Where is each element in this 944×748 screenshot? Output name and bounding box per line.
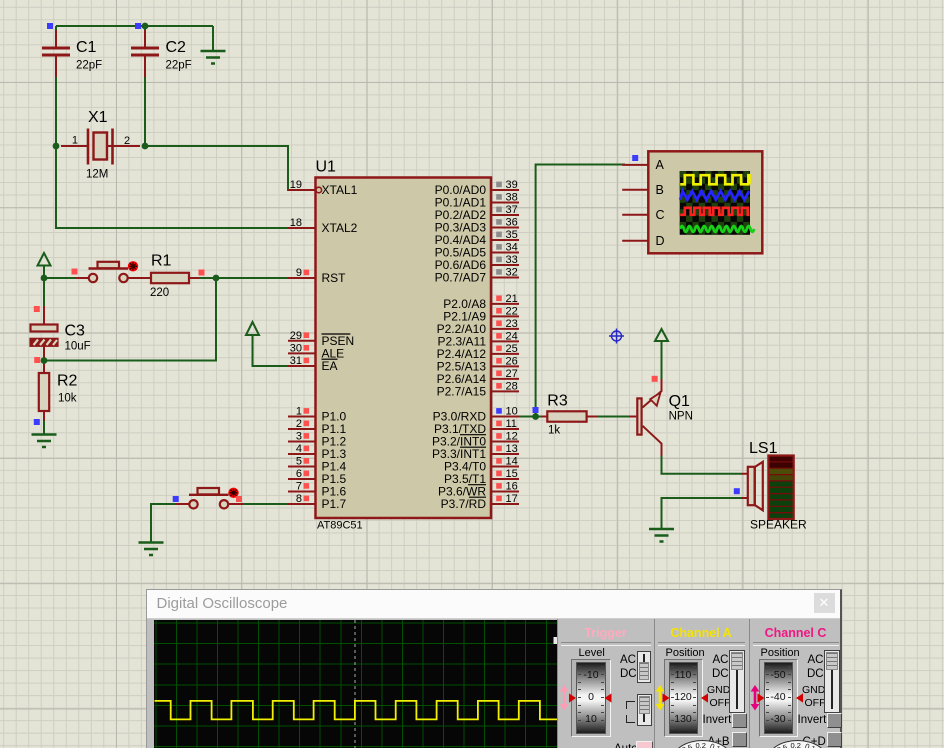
svg-text:C1: C1 <box>76 39 97 56</box>
capacitor C1 22pF <box>42 30 102 77</box>
pin 37 P0.2/AD2 <box>435 204 519 222</box>
pin 32 P0.7/AD7 <box>435 267 519 285</box>
pin 22 P2.1/A9 <box>443 305 519 323</box>
wire C1 to X1 pin1 <box>55 26 57 146</box>
pin 35 P0.4/AD4 <box>435 229 519 247</box>
net indicator speaker <box>734 488 740 494</box>
net indicator scope A <box>632 155 638 161</box>
node C3 bottom <box>41 357 48 364</box>
svg-text:10: 10 <box>506 406 518 418</box>
pin 12 P3.2/INT0 <box>432 431 519 449</box>
node RST <box>213 275 220 282</box>
svg-text:28: 28 <box>506 380 518 392</box>
svg-text:35: 35 <box>506 229 518 241</box>
svg-text:24: 24 <box>506 330 518 342</box>
node P3.0 <box>532 413 539 420</box>
pin indicator button2 right <box>236 496 242 502</box>
svg-text:32: 32 <box>506 267 518 279</box>
wire button2 to P1.7 <box>228 503 292 505</box>
ground below R2 <box>32 435 57 448</box>
svg-text:XTAL1: XTAL1 <box>322 183 358 197</box>
node reset power <box>41 275 48 282</box>
svg-text:EA: EA <box>322 359 338 373</box>
pin 17 P3.7/RD <box>441 493 519 511</box>
svg-text:31: 31 <box>290 355 302 367</box>
pin 36 P0.3/AD3 <box>435 217 519 235</box>
pin 9 RST <box>288 267 346 285</box>
svg-text:18: 18 <box>290 217 302 229</box>
svg-text:29: 29 <box>290 330 302 342</box>
svg-text:19: 19 <box>290 179 302 191</box>
svg-text:D: D <box>656 234 665 248</box>
pin 24 P2.3/A11 <box>438 330 519 348</box>
power terminal reset circuit <box>38 253 51 278</box>
svg-text:4: 4 <box>296 443 302 455</box>
svg-text:B: B <box>656 183 664 197</box>
svg-text:P0.7/AD7: P0.7/AD7 <box>435 271 487 285</box>
svg-text:22pF: 22pF <box>76 60 102 72</box>
net indicator P3.0 wire <box>533 407 539 413</box>
pin 30 ALE <box>288 342 344 360</box>
wire EA power arrow <box>253 336 293 366</box>
svg-text:5: 5 <box>296 456 302 468</box>
svg-text:38: 38 <box>506 192 518 204</box>
pin 38 P0.1/AD1 <box>435 192 519 210</box>
svg-text:36: 36 <box>506 217 518 229</box>
pin 26 P2.5/A13 <box>437 355 519 373</box>
pin indicator C3 top <box>34 306 40 312</box>
svg-text:Q1: Q1 <box>669 393 690 410</box>
svg-text:P1.7: P1.7 <box>322 497 347 511</box>
pin indicator R1 right <box>199 270 205 276</box>
net indicator top-left <box>47 23 53 29</box>
wire power to button1 <box>44 277 90 279</box>
pin 21 P2.0/A8 <box>443 293 519 311</box>
svg-text:1: 1 <box>72 135 78 147</box>
svg-text:1: 1 <box>296 406 302 418</box>
svg-text:P2.7/A15: P2.7/A15 <box>437 385 487 399</box>
svg-text:6: 6 <box>296 468 302 480</box>
wire C2 to X1 pin2 <box>144 26 146 146</box>
pin 13 P3.3/INT1 <box>432 443 519 461</box>
pin 10 P3.0/RXD <box>433 406 519 424</box>
svg-text:220: 220 <box>150 287 169 299</box>
svg-text:R3: R3 <box>547 393 568 410</box>
svg-text:15: 15 <box>506 468 518 480</box>
svg-text:10k: 10k <box>58 393 77 405</box>
svg-text:30: 30 <box>290 342 302 354</box>
resistor R3 1k <box>541 393 598 437</box>
wire ground stub top right <box>212 26 214 51</box>
svg-text:25: 25 <box>506 343 518 355</box>
pin indicator R2 bottom <box>34 419 40 425</box>
resistor R1 220 <box>150 253 199 300</box>
svg-text:12M: 12M <box>86 169 108 181</box>
svg-text:26: 26 <box>506 355 518 367</box>
svg-text:22pF: 22pF <box>166 60 192 72</box>
push button P1.7 <box>176 488 243 509</box>
svg-text:AT89C51: AT89C51 <box>317 520 363 532</box>
svg-text:2: 2 <box>296 418 302 430</box>
svg-text:X1: X1 <box>88 109 108 126</box>
ground top right <box>201 51 226 64</box>
pin indicator button1 <box>72 269 78 275</box>
pin 34 P0.5/AD5 <box>435 242 519 260</box>
wire RST junction down to C3 node <box>44 278 216 361</box>
crystal X1 12M <box>61 109 140 181</box>
pin 1 P1.0 <box>288 406 347 424</box>
pin 25 P2.4/A12 <box>437 343 519 361</box>
origin crosshair marker <box>609 329 624 344</box>
wire Q1 emitter to speaker <box>662 455 742 474</box>
pin 33 P0.6/AD6 <box>435 254 519 272</box>
svg-text:39: 39 <box>506 179 518 191</box>
wire button2 to ground <box>151 504 190 543</box>
pin 4 P1.3 <box>288 443 347 461</box>
pin 11 P3.1/TXD <box>434 418 519 436</box>
node X1 pin1 <box>53 143 60 150</box>
svg-text:11: 11 <box>506 418 517 430</box>
svg-text:22: 22 <box>506 305 518 317</box>
net indicator button2 left <box>173 496 179 502</box>
svg-text:RST: RST <box>322 271 347 285</box>
pin 39 P0.0/AD0 <box>435 179 519 197</box>
oscilloscope component <box>622 151 762 253</box>
pin 31 EA <box>288 355 338 373</box>
svg-text:34: 34 <box>506 242 518 254</box>
pin 15 P3.5/T1 <box>444 468 519 486</box>
pin 6 P1.5 <box>288 468 347 486</box>
svg-text:R1: R1 <box>151 253 172 270</box>
svg-text:8: 8 <box>296 493 302 505</box>
pin 8 P1.7 <box>288 493 347 511</box>
svg-text:A: A <box>656 158 665 172</box>
svg-text:23: 23 <box>506 318 518 330</box>
push button reset <box>76 261 151 282</box>
svg-text:C: C <box>656 208 665 222</box>
svg-text:7: 7 <box>296 481 302 493</box>
pin 29 PSEN <box>288 330 354 348</box>
svg-text:SPEAKER: SPEAKER <box>750 518 807 532</box>
pin 3 P1.2 <box>288 431 347 449</box>
svg-text:U1: U1 <box>316 159 337 176</box>
wire R1 to RST <box>189 277 292 279</box>
pin 16 P3.6/WR <box>438 481 519 499</box>
capacitor C2 22pF <box>131 30 192 77</box>
node X1 pin2 <box>142 143 149 150</box>
pin 19 XTAL1 <box>288 179 358 197</box>
svg-text:27: 27 <box>506 368 518 380</box>
pin 28 P2.7/A15 <box>437 380 519 398</box>
wire speaker to ground <box>662 498 742 529</box>
pin indicator Q1 collector <box>652 376 658 382</box>
svg-text:NPN: NPN <box>669 411 693 423</box>
wire R3 to Q1 base <box>598 416 630 418</box>
wire power junction down to C3 <box>43 278 45 324</box>
power terminal Q1 collector <box>655 329 668 341</box>
pin 7 P1.6 <box>288 481 347 499</box>
op-amp U1 AT89C51 microcontroller body <box>316 159 492 532</box>
svg-text:R2: R2 <box>57 373 78 390</box>
svg-text:16: 16 <box>506 481 518 493</box>
svg-text:XTAL2: XTAL2 <box>322 221 358 235</box>
svg-text:C2: C2 <box>166 39 187 56</box>
svg-text:14: 14 <box>506 456 518 468</box>
pin 23 P2.2/A10 <box>437 318 519 336</box>
svg-text:C3: C3 <box>65 323 86 340</box>
svg-text:2: 2 <box>124 135 130 147</box>
capacitor C3 10uF <box>31 306 91 358</box>
pin indicator C3 bottom <box>34 357 40 363</box>
wire X1 pin2 to XTAL1 <box>145 146 292 190</box>
svg-text:17: 17 <box>506 493 518 505</box>
svg-text:9: 9 <box>296 267 302 279</box>
pin 5 P1.4 <box>288 456 347 474</box>
power terminal EA <box>246 322 259 335</box>
svg-text:37: 37 <box>506 204 518 216</box>
pin 2 P1.1 <box>288 418 347 436</box>
svg-text:10uF: 10uF <box>65 341 91 353</box>
transistor Q1 NPN <box>630 379 693 456</box>
svg-text:12: 12 <box>506 431 518 443</box>
pin 27 P2.6/A14 <box>437 368 519 386</box>
ground below speaker <box>649 529 674 542</box>
svg-text:33: 33 <box>506 254 518 266</box>
svg-text:13: 13 <box>506 443 518 455</box>
speaker LS1 <box>741 440 807 532</box>
ground below button2 <box>139 543 164 556</box>
pin 18 XTAL2 <box>288 217 358 235</box>
net indicator C2 <box>135 23 141 29</box>
wire top ground rail <box>56 25 213 27</box>
node top rail C2 <box>142 23 149 30</box>
svg-text:1k: 1k <box>548 425 560 437</box>
svg-text:3: 3 <box>296 431 302 443</box>
svg-text:P3.7/RD: P3.7/RD <box>441 497 487 511</box>
wire X1 pin1 to XTAL2 <box>56 146 292 228</box>
svg-text:LS1: LS1 <box>749 440 778 457</box>
svg-text:21: 21 <box>506 293 518 305</box>
Digital Oscilloscope window <box>146 589 842 748</box>
pin 14 P3.4/T0 <box>444 456 519 474</box>
wire Q1 collector to power <box>661 341 663 379</box>
resistor R2 10k <box>39 361 78 435</box>
wire P3.0 to R3 and scope A <box>519 165 625 417</box>
